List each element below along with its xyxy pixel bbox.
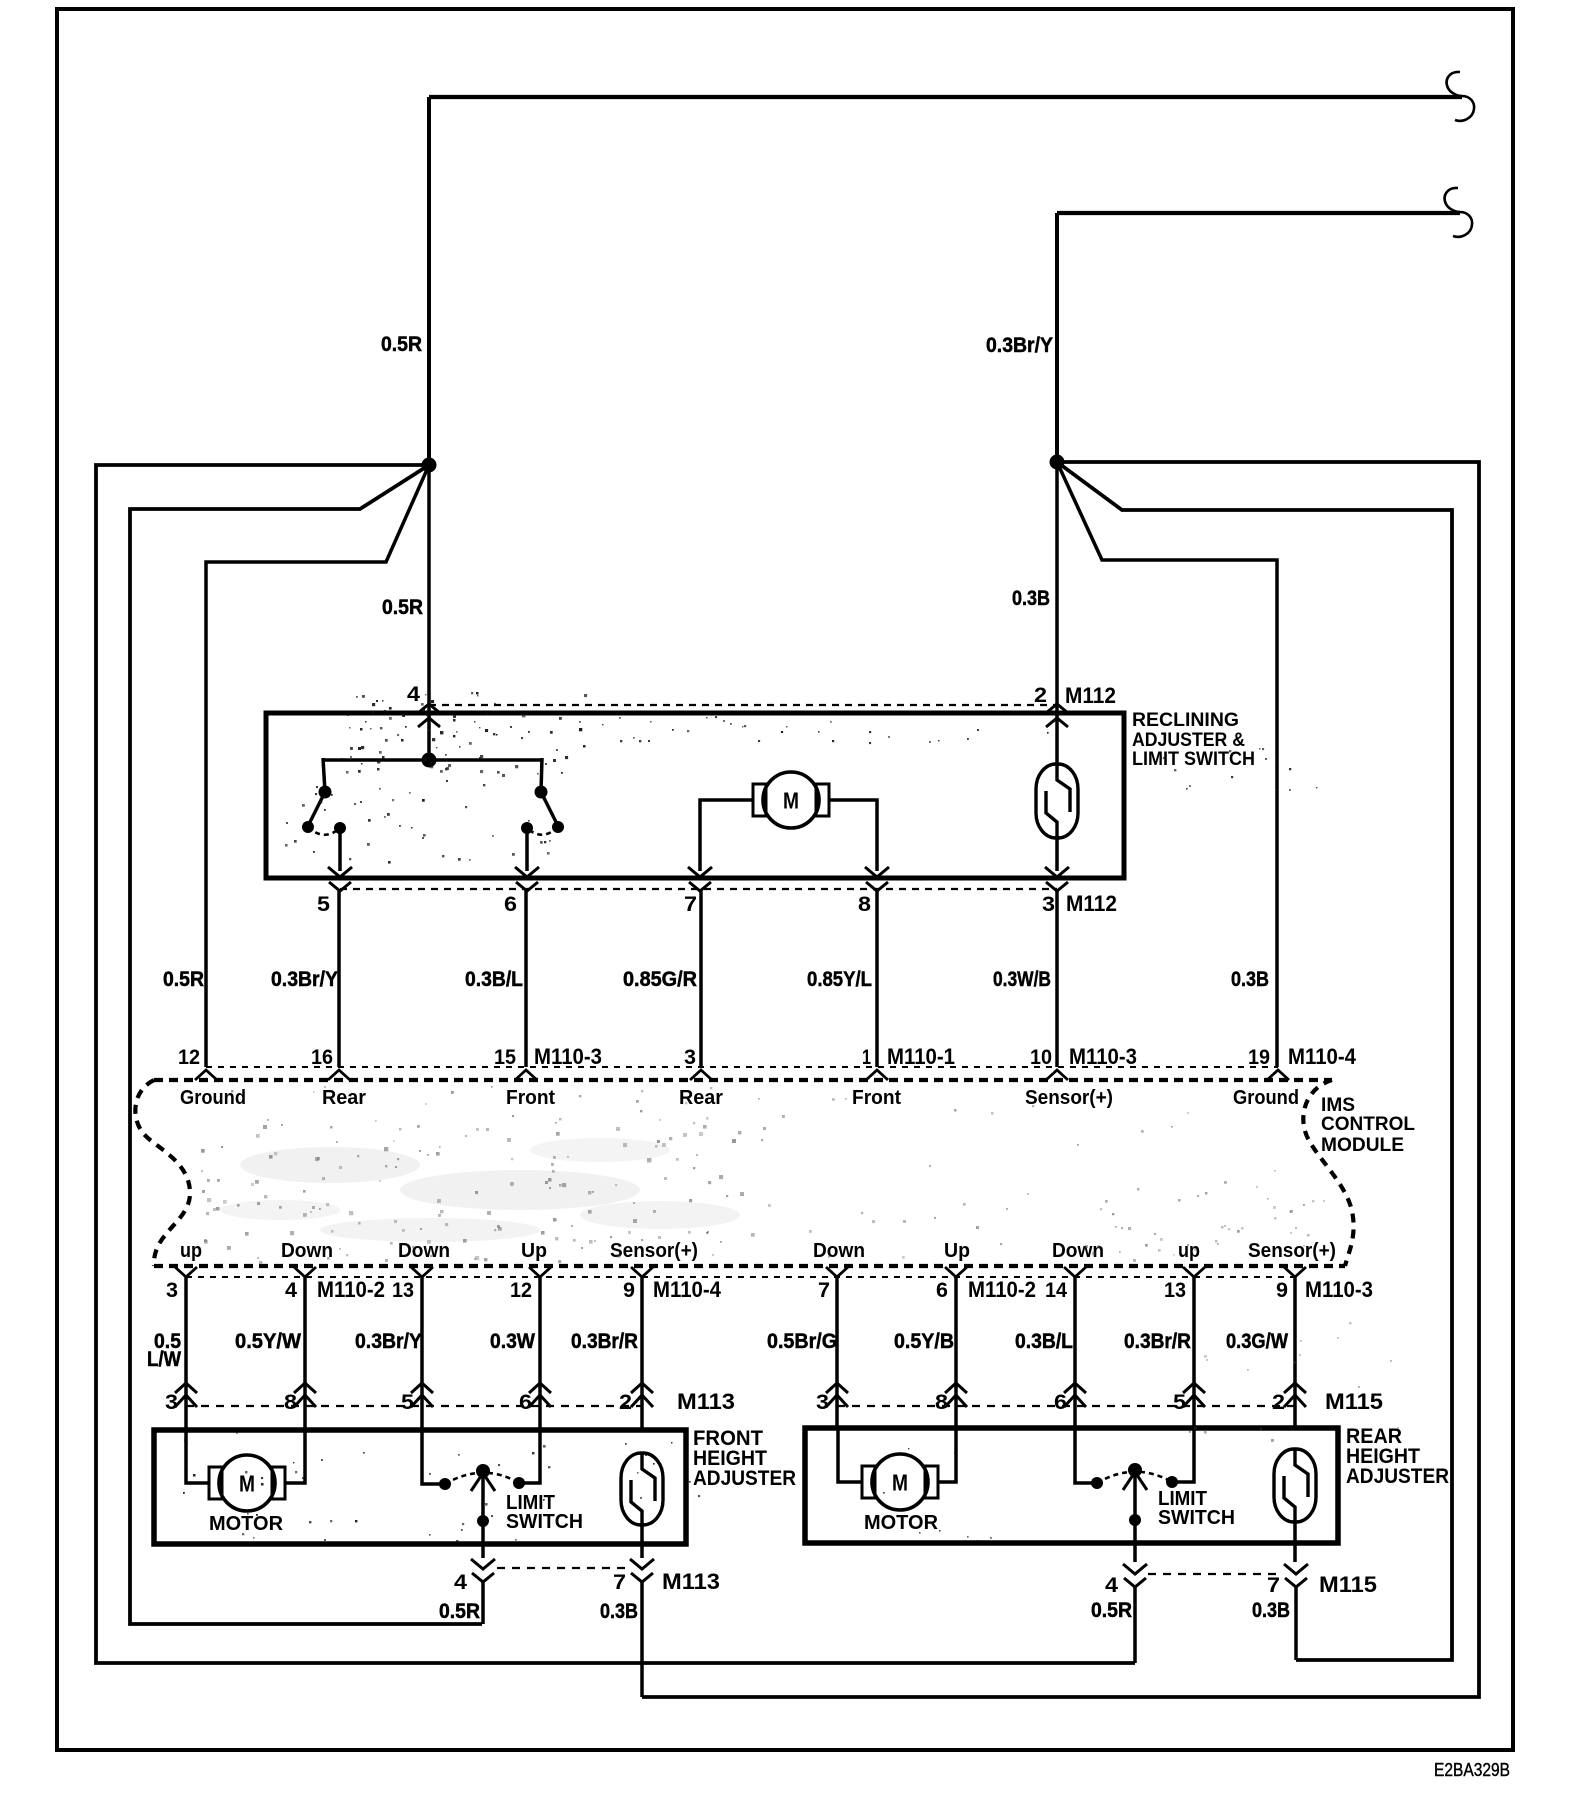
svg-text:5: 5 [401,1391,414,1414]
pin number 10 [1030,1046,1052,1069]
label 0.3Br/Y b [355,1329,422,1353]
svg-text:13: 13 [392,1279,414,1302]
svg-text:10: 10 [1030,1046,1052,1069]
svg-text:Sensor(+): Sensor(+) [1248,1240,1336,1262]
switch reclining right arm [541,792,558,826]
connector label M110-3 a [534,1044,602,1069]
ims pin label Sensor(+) bottom [610,1240,698,1262]
ims pin 19 socket [1267,1070,1289,1080]
svg-text:Down: Down [281,1240,333,1262]
pin number 2 [1034,684,1047,707]
pin number 12 [178,1046,200,1069]
connector M112 pin 4 dashed line [429,704,1057,706]
label 0.3B bottom rear [1252,1598,1290,1622]
svg-text:0.3Br/Y: 0.3Br/Y [355,1329,422,1353]
svg-text:0.5Y/W: 0.5Y/W [235,1329,302,1353]
wire rear limit left [1075,1428,1097,1483]
svg-text:6: 6 [936,1279,948,1302]
junction node switch bus [422,753,437,768]
label 0.5R left [163,967,204,991]
svg-text:0.3W/B: 0.3W/B [993,967,1051,991]
wire sensor to pin 3 [1055,838,1059,871]
connector M112 pin 8 chevrons [865,867,889,891]
svg-text:M110-3: M110-3 [534,1044,602,1069]
svg-text:Down: Down [398,1240,450,1262]
wire front motor right [286,1430,305,1483]
pin number 8 M115 [935,1391,948,1414]
pin number 13 bottom [392,1279,414,1302]
wire rear motor left [838,1428,862,1482]
svg-text:M115: M115 [1325,1389,1383,1414]
svg-text:M110-2: M110-2 [968,1277,1036,1302]
ims module top pin dashed line [206,1066,1278,1068]
label 0.3B right [1231,967,1269,991]
svg-text:0.3B/L: 0.3B/L [465,967,523,991]
svg-text:SWITCH: SWITCH [1158,1507,1235,1529]
wire front limit left [422,1430,445,1484]
svg-text:ADJUSTER &: ADJUSTER & [1132,730,1245,751]
wire rear limit right [1172,1428,1194,1482]
wire 0.3Br/Y top horizontal feed [1057,211,1460,215]
label 0.5R top [381,332,422,356]
rear limit wiper arrow [1123,1472,1147,1490]
ims pin label Down bottom [398,1240,450,1262]
label 0.3B bottom front [600,1599,638,1623]
svg-text:2: 2 [1272,1391,1285,1414]
label 0.3Br/R a [571,1329,638,1353]
label 0.5Y/B [894,1329,954,1353]
svg-text:Sensor(+): Sensor(+) [610,1240,698,1262]
wire rear pin4 to return [1133,1587,1137,1663]
svg-text:14: 14 [1045,1279,1067,1302]
pin number 16 [311,1046,333,1069]
ims pin 4 socket bottom [294,1267,316,1277]
ims module bottom pin dashed line [186,1276,1295,1278]
ims pin label Down bottom [281,1240,333,1262]
connector label M112 bottom [1066,891,1117,916]
svg-text:0.3Br/Y: 0.3Br/Y [271,967,338,991]
svg-text:MODULE: MODULE [1321,1135,1404,1156]
reclining adjuster & limit switch box [266,713,1124,878]
connector M113 pin 4 chevrons [471,1559,495,1582]
wire 0.3B/L pin6 to pin15 [524,891,528,1067]
connector label M113 [677,1389,735,1414]
svg-text:M110-2: M110-2 [317,1277,385,1302]
switch reclining left pivot wire [323,758,325,792]
connector M112 bottom dashed line [340,888,1057,890]
wire rear sensor lower [1293,1522,1297,1562]
front limit travel arc [445,1473,519,1484]
connector label M110-4 [1288,1044,1357,1069]
ims pin label up bottom [180,1240,202,1262]
svg-text:12: 12 [510,1279,532,1302]
svg-text:M112: M112 [1066,891,1117,916]
front limit left contact [439,1478,451,1490]
connector M115 pin 2 chevrons [1284,1383,1306,1407]
svg-text:1: 1 [862,1046,871,1069]
svg-text:Rear: Rear [679,1087,723,1109]
pin number 3 M113 [165,1391,178,1414]
connector M113 pin 3 chevrons [175,1383,197,1407]
connector M115 dashed line [837,1405,1295,1407]
wire rear motor right [938,1428,956,1482]
switch reclining right arm contact [552,821,564,833]
ims pin label Front [506,1087,555,1109]
wire module to adjuster [1293,1277,1297,1430]
svg-text:15: 15 [494,1046,516,1069]
svg-text:ADJUSTER: ADJUSTER [693,1467,796,1490]
pin number 3 M115 [816,1391,829,1414]
connector M115 pin 6 chevrons [1064,1383,1086,1407]
connector label M110-2 a [317,1277,385,1302]
ims module left wavy border [135,1080,190,1266]
switch reclining left fixed contact [334,822,346,834]
wire 0.3Br/Y top vertical [1055,213,1059,462]
svg-text:RECLINING: RECLINING [1132,710,1239,731]
svg-text:7: 7 [818,1279,830,1302]
rear limit right contact [1166,1476,1178,1488]
pin number 3 bottom [166,1279,178,1302]
svg-text:M113: M113 [662,1569,720,1594]
label MOTOR front [209,1513,284,1535]
connector M115 pin 5 chevrons [1183,1383,1205,1407]
wire module to adjuster [1073,1277,1077,1430]
pin number 4 bottom [285,1279,297,1302]
ims pin 1 socket [866,1070,888,1080]
ims pin label Sensor(+) bottom [1248,1240,1336,1262]
pin number 5 M113 [401,1391,414,1414]
svg-text:2: 2 [1034,684,1047,707]
label 0.3B/L [465,967,523,991]
svg-text:M110-4: M110-4 [653,1277,722,1302]
label 0.85Y/L [807,967,872,991]
svg-text:13: 13 [1164,1279,1186,1302]
svg-text:3: 3 [684,1046,696,1069]
scan speckle noise [183,692,1399,1543]
wire branch right outer [642,462,1479,1697]
svg-text:0.5R: 0.5R [163,967,204,991]
connector label M115 [1325,1389,1383,1414]
ims pin label Down bottom [1052,1240,1104,1262]
ims pin 3 socket bottom [175,1267,197,1277]
pin number 9 bottom [623,1279,635,1302]
svg-text:0.3B: 0.3B [1252,1598,1290,1622]
pin number 6 bottom [936,1279,948,1302]
label 0.85G/R [623,967,697,991]
pin number 12 bottom [510,1279,532,1302]
wire 0.3B into reclining sensor [1055,462,1059,764]
wire module to adjuster [303,1277,307,1430]
label 0.3W [490,1329,536,1353]
off-page connector curl upper [1447,72,1474,121]
svg-text:0.3W: 0.3W [490,1329,536,1353]
ims pin label Front [852,1087,901,1109]
wire contact to pin 5 [338,828,342,871]
svg-text:Down: Down [1052,1240,1104,1262]
label 0.3W/B [993,967,1051,991]
pin number 3 [684,1046,696,1069]
box title reclining [1132,710,1255,770]
pin number 8 M113 [284,1391,297,1414]
pin number 4 [407,683,420,706]
connector M115 bottom dashed [1148,1573,1283,1575]
connector M113 pin 2 chevrons [631,1383,653,1407]
pin number 5 [317,893,330,916]
wire branch right middle [1057,462,1452,1660]
ims module right wavy border [1303,1080,1353,1266]
pin number 9 bottom [1276,1279,1288,1302]
motor M reclining [753,772,829,828]
pin number 3 [1042,893,1055,916]
connector M112 pin 2 chevrons [1046,704,1068,727]
ims pin label Sensor(+) [1025,1087,1113,1109]
connector M113 dashed line [186,1405,641,1407]
ims pin 16 socket [328,1070,350,1080]
connector M113 bottom dashed [497,1567,630,1569]
ims pin label Ground [180,1087,246,1109]
svg-text:Ground: Ground [180,1087,246,1109]
wire module to adjuster [184,1277,188,1430]
svg-text:MOTOR: MOTOR [209,1513,284,1535]
svg-text:0.3G/W: 0.3G/W [1226,1329,1289,1353]
connector M115 pin 7 chevrons [1284,1564,1308,1587]
rear limit left contact [1091,1477,1103,1489]
wire 0.85G/R pin7 to pin3 [699,891,703,1067]
pin number 4 M113 [454,1571,467,1594]
rear limit junction [1129,1514,1141,1526]
label MOTOR rear [864,1512,939,1534]
ims pin label up bottom [1178,1240,1200,1262]
wire module to adjuster [420,1277,424,1430]
pin number 14 bottom [1045,1279,1067,1302]
connector label M110-4 b [653,1277,722,1302]
svg-text:8: 8 [858,893,871,916]
ims pin 10 socket [1046,1070,1068,1080]
connector M115 pin 3 chevrons [826,1383,848,1407]
svg-text:0.5R: 0.5R [439,1599,480,1623]
pin number 13 bottom [1164,1279,1186,1302]
connector M112 pin 3 chevrons [1045,867,1069,891]
wire 0.5R into reclining switch [427,465,431,760]
svg-text:2: 2 [619,1391,632,1414]
pin number 2 M113 [619,1391,632,1414]
wire module to adjuster [954,1277,958,1430]
svg-text:Rear: Rear [322,1087,366,1109]
svg-text:Front: Front [506,1087,555,1109]
junction node left [422,458,437,473]
ims pin 14 socket bottom [1064,1267,1086,1277]
svg-text:3: 3 [166,1279,178,1302]
pin number 1 [862,1046,871,1069]
pin number 6 M113 [519,1391,532,1414]
ims pin label Ground [1233,1087,1299,1109]
svg-text:4: 4 [1105,1574,1118,1597]
pin number 4 M115 [1105,1574,1118,1597]
wire front limit right [519,1430,540,1483]
switch reclining right pivot wire [541,758,542,792]
wire branch left middle [130,465,482,1624]
wire front pin7 to ground rail [640,1582,644,1697]
svg-text:0.5R: 0.5R [381,332,422,356]
svg-text:IMS: IMS [1321,1095,1355,1116]
svg-text:4: 4 [407,683,420,706]
front limit pivot [476,1464,490,1478]
svg-text:Ground: Ground [1233,1087,1299,1109]
ims pin 9 socket bottom [1284,1267,1306,1277]
svg-text:6: 6 [519,1391,532,1414]
svg-text:M115: M115 [1319,1572,1377,1597]
connector label M113 bottom [662,1569,720,1594]
svg-text:7: 7 [1267,1574,1280,1597]
ims pin 15 socket [515,1070,537,1080]
connector M115 pin 4 chevrons [1123,1564,1147,1587]
svg-text:19: 19 [1248,1046,1270,1069]
svg-text:L/W: L/W [147,1347,182,1371]
label 0.3Br/Y top [986,333,1053,357]
ims pin label Rear [679,1087,723,1109]
svg-text:M112: M112 [1065,683,1116,708]
ims module title [1321,1095,1415,1156]
wire branch right inner to pin 19 [1057,462,1277,1067]
front limit junction [477,1515,489,1527]
svg-text:Up: Up [944,1240,970,1262]
front height adjuster box [154,1430,686,1544]
wire module to adjuster [1192,1277,1196,1430]
label 0.5Br/G [767,1329,837,1353]
switch reclining left travel arc [308,827,340,835]
svg-text:3: 3 [816,1391,829,1414]
connector label M115 bottom [1319,1572,1377,1597]
svg-text:Down: Down [813,1240,865,1262]
svg-text:3: 3 [1042,893,1055,916]
ims pin 3 socket [690,1070,712,1080]
wire module to adjuster [640,1277,644,1430]
ims pin label Down bottom [813,1240,865,1262]
svg-text:9: 9 [623,1279,635,1302]
ims module bottom border [154,1264,1345,1268]
wire 0.3Br/Y pin5 to pin16 [337,891,341,1067]
pin number 5 M115 [1173,1391,1186,1414]
svg-text:9: 9 [1276,1279,1288,1302]
sensor rear [1274,1448,1316,1523]
svg-text:E2BA329B: E2BA329B [1434,1760,1510,1780]
label 0.5R bottom rear [1091,1598,1132,1622]
svg-text:7: 7 [613,1571,626,1594]
connector label M112 top [1065,683,1116,708]
svg-text:16: 16 [311,1046,333,1069]
wire 0.5R top vertical [427,97,431,465]
svg-text:Front: Front [852,1087,901,1109]
svg-text:0.85G/R: 0.85G/R [623,967,697,991]
label 0.3Br/Y [271,967,338,991]
ims pin 12 socket bottom [529,1267,551,1277]
connector M115 pin 8 chevrons [945,1383,967,1407]
label 0.3G/W [1226,1329,1289,1353]
wire motor left to pin 7 [700,800,753,871]
pin number 2 M115 [1272,1391,1285,1414]
label 0.3B mid [1012,586,1050,610]
connector M112 pin 5 chevrons [328,867,352,891]
svg-text:M113: M113 [677,1389,735,1414]
svg-text:M110-3: M110-3 [1305,1277,1373,1302]
sensor reclining [1036,763,1078,839]
ims pin 7 socket bottom [826,1267,848,1277]
svg-text:7: 7 [684,893,697,916]
connector M113 pin 7 chevrons [630,1559,654,1582]
label 0.3Br/R b [1124,1329,1191,1353]
switch reclining left arm [308,792,325,826]
motor M rear [862,1454,938,1510]
svg-text:5: 5 [1173,1391,1186,1414]
label 0.3B/L b [1015,1329,1073,1353]
label LIMIT SWITCH rear [1158,1488,1235,1529]
rear limit travel arc [1097,1472,1172,1483]
connector label M110-1 [887,1044,955,1069]
wire rear limit common [1133,1471,1137,1562]
ims pin label Up bottom [521,1240,547,1262]
pin number 7 bottom [818,1279,830,1302]
svg-text:up: up [1178,1240,1200,1262]
svg-text:8: 8 [284,1391,297,1414]
svg-text:M110-3: M110-3 [1069,1044,1137,1069]
wire branch left outer [96,465,1135,1663]
svg-text:CONTROL: CONTROL [1321,1114,1415,1135]
connector M113 pin 6 chevrons [529,1383,551,1407]
connector M112 pin 7 chevrons [688,867,712,891]
ims pin label Rear [322,1087,366,1109]
motor M front [209,1455,285,1511]
wire branch left inner to pin 12 [206,465,429,1067]
pin number 6 [504,893,517,916]
ims pin label Up bottom [944,1240,970,1262]
pin number 15 [494,1046,516,1069]
wire front sensor lower [640,1525,644,1558]
svg-text:M110-1: M110-1 [887,1044,955,1069]
wire 0.3W/B pin3 to pin10 [1055,891,1059,1067]
pin number 7 M113 [613,1571,626,1594]
svg-text:0.85Y/L: 0.85Y/L [807,967,872,991]
label 0.5 L/W [147,1329,182,1371]
svg-text:0.3B: 0.3B [600,1599,638,1623]
off-page connector curl lower [1445,188,1472,237]
svg-text:ADJUSTER: ADJUSTER [1346,1465,1449,1488]
connector label M110-3 c [1305,1277,1373,1302]
svg-text:Sensor(+): Sensor(+) [1025,1087,1113,1109]
pin number 7 [684,893,697,916]
wire front limit common [481,1472,485,1558]
wire rear pin7 to ground rail [1294,1587,1298,1660]
connector M112 pin 6 chevrons [515,867,539,891]
wire 0.85Y/L pin8 to pin1 [875,891,879,1067]
pin number 7 M115 [1267,1574,1280,1597]
svg-text:5: 5 [317,893,330,916]
connector M113 pin 5 chevrons [411,1383,433,1407]
svg-text:0.5Br/G: 0.5Br/G [767,1329,837,1353]
svg-text:M110-4: M110-4 [1288,1044,1357,1069]
rear height adjuster box [805,1428,1338,1543]
label 0.5R mid [382,595,423,619]
box title front height adjuster [693,1427,796,1490]
ims pin 13 socket bottom [1183,1267,1205,1277]
svg-text:LIMIT SWITCH: LIMIT SWITCH [1132,749,1255,770]
svg-text:6: 6 [1054,1391,1067,1414]
svg-text:3: 3 [165,1391,178,1414]
wire front motor left [186,1430,209,1483]
label 0.5R bottom front [439,1599,480,1623]
front limit wiper arrow [471,1473,495,1491]
svg-text:Up: Up [521,1240,547,1262]
svg-text:0.3B: 0.3B [1231,967,1269,991]
